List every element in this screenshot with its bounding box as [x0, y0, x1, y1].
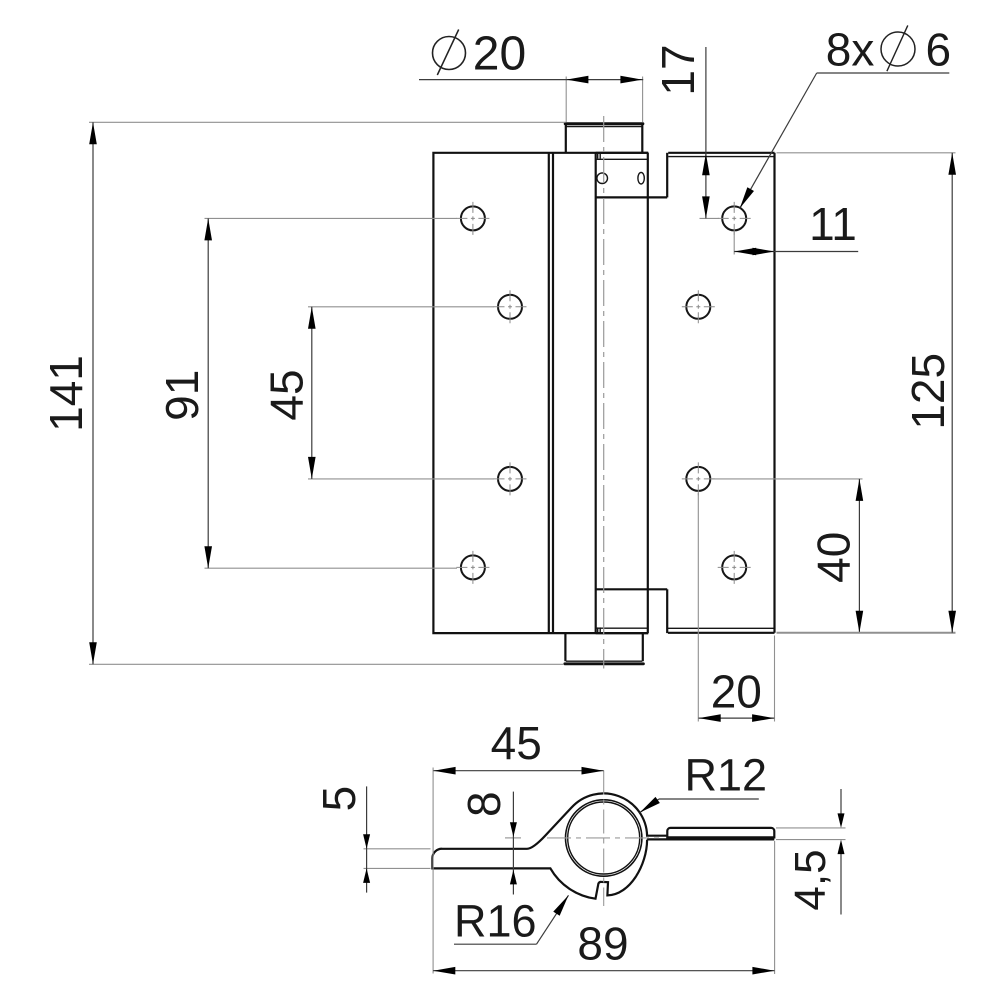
svg-text:40: 40	[808, 532, 860, 583]
svg-text:R12: R12	[685, 750, 768, 801]
svg-text:11: 11	[809, 198, 857, 250]
svg-text:8: 8	[458, 791, 510, 817]
svg-text:6: 6	[926, 24, 952, 76]
svg-text:91: 91	[156, 370, 208, 421]
svg-text:141: 141	[40, 355, 92, 432]
svg-text:20: 20	[711, 666, 762, 718]
svg-text:4,5: 4,5	[786, 849, 835, 910]
svg-text:R16: R16	[454, 896, 537, 947]
svg-text:8x: 8x	[826, 24, 875, 76]
svg-text:20: 20	[473, 28, 526, 81]
svg-text:45: 45	[261, 369, 313, 420]
svg-text:45: 45	[491, 717, 542, 769]
svg-text:5: 5	[313, 786, 365, 812]
svg-text:17: 17	[652, 44, 704, 95]
svg-text:125: 125	[902, 353, 954, 430]
svg-text:89: 89	[577, 918, 628, 970]
